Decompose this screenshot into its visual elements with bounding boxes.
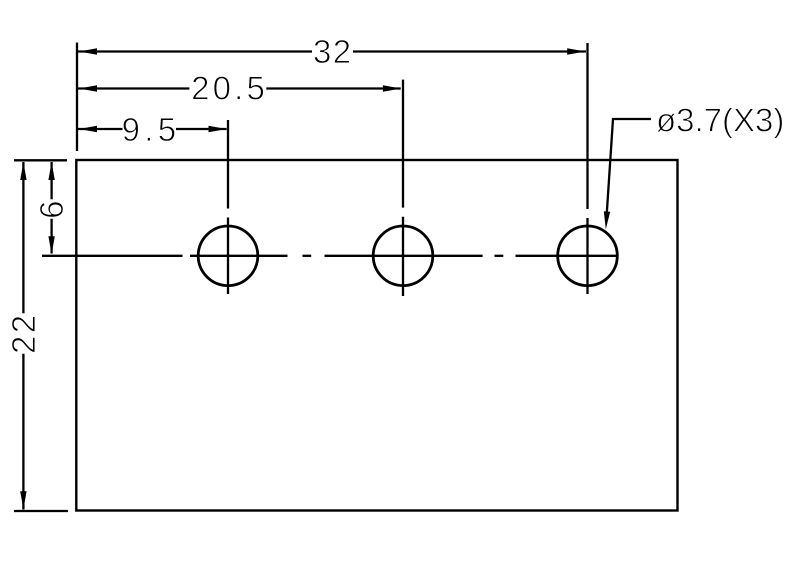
svg-text:6: 6: [33, 201, 70, 219]
left extension line vertical: [76, 43, 78, 152]
vertical centerline hole 1: [227, 120, 229, 294]
extension line top left horizontal: [14, 159, 67, 161]
vertical centerline hole 2: [402, 80, 404, 296]
svg-text:20.5: 20.5: [191, 70, 268, 107]
svg-text:32: 32: [313, 33, 353, 70]
dimension 22: [5, 162, 42, 510]
vertical centerline hole 3: [586, 43, 588, 294]
plate outline: [76, 160, 677, 511]
dimension 9.5: [78, 111, 227, 148]
leader for hole diameter: [604, 102, 785, 230]
hole 1: [198, 226, 258, 286]
svg-text:22: 22: [5, 312, 42, 354]
horizontal centerline through holes: [42, 255, 617, 257]
dimension 6: [33, 162, 70, 254]
hole 2: [373, 226, 433, 286]
svg-text:ø3.7(X3): ø3.7(X3): [656, 102, 784, 139]
hole 3: [558, 226, 618, 286]
dimension 32: [78, 33, 586, 70]
dimension 20.5: [78, 70, 401, 107]
svg-text:9.5: 9.5: [122, 111, 181, 148]
extension line bottom left horizontal: [14, 510, 68, 512]
